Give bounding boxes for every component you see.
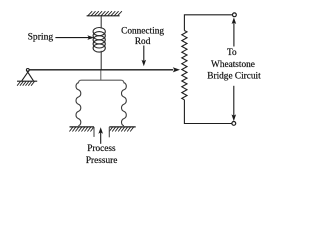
svg-text:Pressure: Pressure <box>86 156 118 166</box>
svg-text:Bridge Circuit: Bridge Circuit <box>207 72 261 82</box>
bellows right corrugated side <box>122 83 127 126</box>
bellows top plate <box>78 80 124 83</box>
process pressure arrow <box>100 133 102 144</box>
svg-text:Wheatstone: Wheatstone <box>211 60 255 70</box>
left port wall <box>93 127 95 137</box>
bottom terminal <box>232 122 236 126</box>
spring coil <box>93 28 105 53</box>
right base plate hatch marks <box>109 127 133 131</box>
top terminal arrow <box>233 22 235 47</box>
left base plate <box>70 126 95 128</box>
svg-text:Process: Process <box>87 144 116 154</box>
connecting rod label arrow <box>143 46 145 62</box>
resistor bottom wire <box>184 100 231 124</box>
pivot hatch marks <box>17 81 34 85</box>
bottom terminal arrow <box>233 86 235 116</box>
connecting rod beam to bellows <box>100 70 102 80</box>
svg-text:Spring: Spring <box>28 32 54 43</box>
bellows left corrugated side <box>76 83 81 126</box>
fixed support (ceiling anchor) <box>87 15 120 17</box>
beam arrowhead into resistor <box>173 67 180 72</box>
wire spring to beam <box>100 51 102 70</box>
strain-gauge resistor (zigzag) <box>182 31 187 100</box>
right port wall <box>108 127 110 137</box>
left base plate hatch marks <box>69 127 93 131</box>
svg-text:Connecting: Connecting <box>121 26 164 36</box>
lever beam <box>29 69 173 71</box>
pivot triangle <box>22 70 34 81</box>
pivot circle <box>26 69 29 72</box>
svg-text:To: To <box>227 48 237 58</box>
pivot ground line <box>17 80 37 82</box>
resistor top wire <box>184 15 232 31</box>
top terminal <box>233 13 237 17</box>
svg-text:Rod: Rod <box>135 37 151 47</box>
right base plate <box>109 126 135 128</box>
spring label arrow <box>55 37 89 39</box>
wire ceiling to spring <box>100 16 102 29</box>
ceiling hatch marks <box>88 11 122 15</box>
